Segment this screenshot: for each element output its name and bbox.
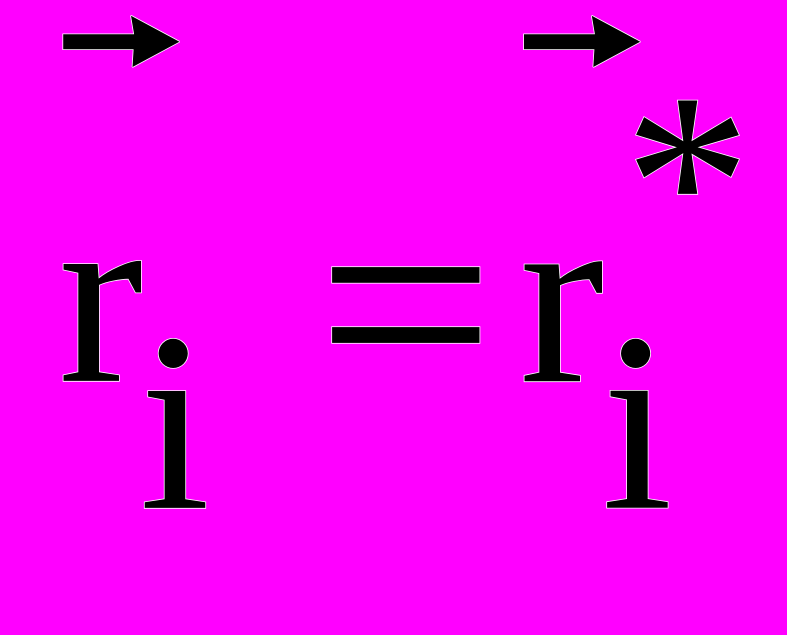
vector arrow over left r <box>63 16 179 67</box>
equals sign top bar <box>332 267 479 283</box>
superscript asterisk on right r <box>636 101 739 194</box>
dot of left subscript i <box>159 339 188 368</box>
subscript i of right r <box>607 391 668 508</box>
subscript i of left r <box>145 391 206 508</box>
equals sign bottom bar <box>332 327 479 343</box>
vector arrow over right r <box>524 16 640 67</box>
variable r (right) <box>525 261 603 381</box>
dot of right subscript i <box>621 339 650 368</box>
variable r (left) <box>64 261 142 381</box>
